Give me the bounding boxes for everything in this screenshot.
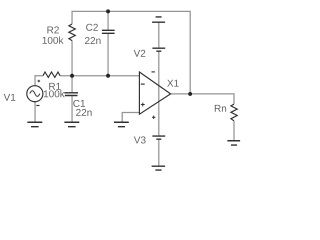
wire Rn bottom lead bbox=[233, 121, 235, 141]
label R2 bbox=[47, 26, 58, 33]
wire top feedback rail bbox=[72, 11, 190, 94]
wire C2 top stem bbox=[107, 11, 109, 30]
node junction output feedback bbox=[188, 92, 192, 96]
wire V2 top stem bbox=[158, 22, 160, 47]
wire non-inverting input to ground bbox=[122, 113, 139, 123]
V1 minus mark bbox=[36, 105, 39, 107]
node junction C2 top bbox=[106, 9, 110, 13]
V2 minus mark bbox=[152, 71, 155, 73]
wire V3 bottom lead bbox=[158, 140, 160, 166]
label C2 bbox=[86, 24, 98, 31]
wire V1 bottom lead bbox=[34, 102, 36, 122]
node junction R2 C1 input bbox=[70, 74, 74, 78]
op-amp inverting input marker bbox=[141, 83, 145, 85]
resistor R2 bbox=[69, 24, 76, 41]
label R1 bbox=[49, 83, 60, 90]
wire C2 bottom stem bbox=[107, 34, 109, 76]
label R2 value 100k bbox=[43, 37, 64, 44]
capacitor C2 bbox=[102, 30, 115, 33]
wire V2 to V3 power stem bbox=[158, 52, 160, 136]
label R1 value 100k bbox=[44, 90, 65, 97]
label C1 value 22n bbox=[76, 109, 92, 116]
label V1 bbox=[4, 94, 16, 101]
V1 plus mark bbox=[38, 80, 41, 83]
wire C1 top stem bbox=[71, 76, 73, 93]
ground flipped above V2 bbox=[152, 17, 165, 22]
label Rn bbox=[215, 105, 226, 112]
V3 plus mark bbox=[152, 116, 155, 119]
wire V1 top lead to R1 bbox=[35, 76, 43, 86]
label X1 bbox=[167, 80, 179, 87]
wire op-amp output to Rn bbox=[171, 94, 234, 104]
op-amp X1 triangle bbox=[139, 72, 170, 114]
label C1 bbox=[73, 100, 85, 107]
resistor Rn bbox=[231, 104, 237, 121]
resistor R1 bbox=[43, 72, 60, 77]
label V3 bbox=[134, 136, 146, 143]
label C2 value 22n bbox=[85, 37, 101, 44]
source V1 sine bbox=[30, 91, 40, 97]
capacitor C1 bbox=[64, 93, 78, 96]
op-amp non-inverting input marker bbox=[141, 103, 145, 107]
ground under non-inverting input bbox=[114, 122, 129, 126]
battery V3 bbox=[152, 136, 165, 139]
wire C1 bottom stem bbox=[71, 96, 73, 122]
source V1 circle bbox=[27, 86, 43, 102]
ground under C1 bbox=[64, 122, 79, 126]
ground under V1 bbox=[27, 122, 42, 126]
label V2 bbox=[134, 50, 146, 57]
wire R2 bottom lead bbox=[71, 41, 73, 76]
ground under V3 bbox=[152, 166, 166, 170]
node junction C2 bottom bbox=[106, 74, 110, 78]
ground under Rn bbox=[227, 141, 240, 145]
wire R1 to op-amp inverting input bbox=[60, 75, 139, 77]
battery V2 bbox=[152, 48, 165, 51]
